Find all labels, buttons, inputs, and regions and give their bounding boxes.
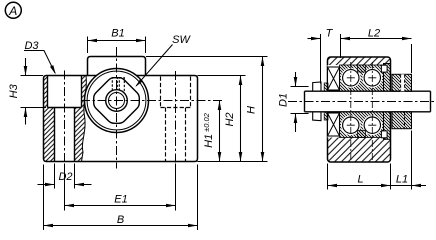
inner ring left sections — [324, 83, 328, 120]
balls — [341, 65, 382, 138]
adapter sleeve left — [313, 82, 321, 121]
top edge extension for H2 — [198, 75, 246, 77]
svg-text:L: L — [357, 173, 363, 185]
svg-text:L1: L1 — [396, 173, 408, 185]
dimension H3 — [8, 58, 46, 125]
bearing outer circles — [85, 69, 149, 133]
label SW with leader — [134, 34, 192, 88]
dimension L2 — [341, 28, 412, 74]
dimension B1 — [88, 28, 146, 54]
bearing ring sections (hatched bands) — [340, 65, 384, 138]
dimension T — [308, 28, 341, 84]
inner ring right sections — [381, 64, 390, 140]
view label A — [5, 2, 21, 18]
counterbore left hole — [48, 76, 82, 108]
base extension line right — [198, 161, 268, 163]
svg-text:H2: H2 — [224, 112, 236, 126]
dimension L — [328, 164, 391, 190]
svg-text:H: H — [246, 106, 258, 114]
dimension H — [246, 57, 265, 162]
svg-text:B: B — [117, 214, 124, 226]
seals (X squares) — [328, 67, 340, 136]
dimension H2 — [224, 76, 242, 162]
shaft — [305, 91, 431, 112]
hidden right counterbore (dashed) — [161, 77, 191, 108]
centerline vertical bearing — [116, 47, 118, 169]
bore circles — [106, 90, 128, 112]
locking collar octagon SW — [94, 78, 140, 124]
centerline horizontal bearing — [81, 100, 224, 102]
hatched section area left block — [44, 76, 87, 162]
block body outline — [44, 76, 198, 162]
svg-text:D1: D1 — [278, 93, 290, 107]
break line (wavy) — [82, 76, 87, 162]
dimension D1 — [278, 72, 309, 132]
svg-text:D2: D2 — [58, 171, 72, 183]
svg-text:E1: E1 — [114, 194, 127, 206]
eccentric locking collar right — [392, 74, 412, 128]
dimension H1 +-0.02 — [202, 101, 221, 162]
boss top extension for H — [146, 56, 268, 58]
housing block section — [328, 57, 391, 162]
set screws hidden (dashed) — [112, 78, 124, 92]
centerline right hole — [175, 71, 177, 167]
hidden right through hole (dashed) — [166, 108, 186, 162]
dimension L1 — [391, 131, 427, 190]
centerline shaft — [288, 101, 434, 103]
dimension E1 — [65, 164, 176, 211]
svg-text:SW: SW — [172, 34, 191, 46]
label D3 with leader — [24, 40, 57, 75]
svg-text:B1: B1 — [111, 28, 124, 40]
ball row centerlines — [347, 62, 377, 161]
dimension B — [44, 165, 198, 231]
svg-text:A: A — [8, 4, 17, 18]
through hole left — [55, 108, 75, 162]
svg-text:H3: H3 — [8, 83, 20, 98]
svg-text:L2: L2 — [368, 28, 380, 40]
boss (raised center) — [88, 57, 146, 76]
centerline left hole — [64, 71, 66, 168]
bearing cavity top band — [328, 65, 390, 138]
dimension D2 — [38, 164, 92, 189]
